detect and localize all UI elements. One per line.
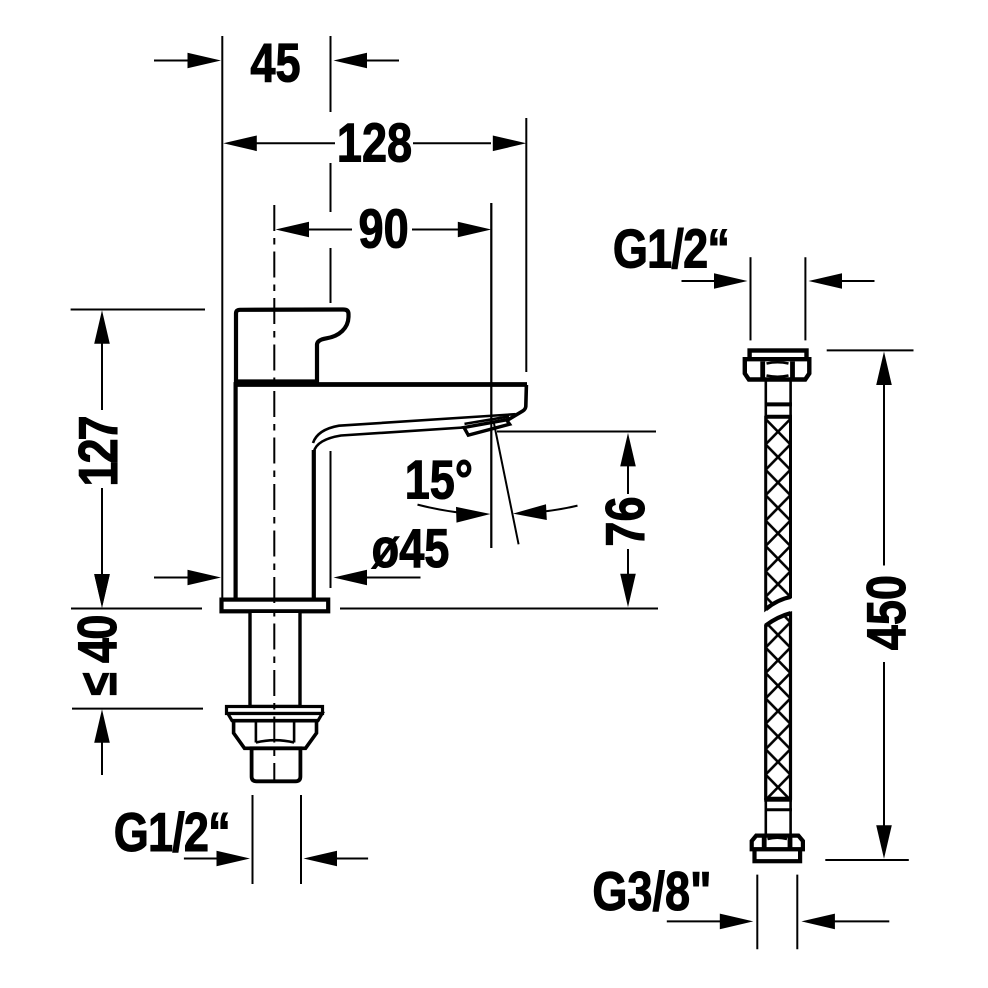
dimension 76: dim line and arrows	[620, 433, 636, 467]
svg-text:45: 45	[250, 31, 300, 93]
hose upper braid	[766, 417, 791, 609]
dimension G3/8: arrows	[667, 920, 722, 922]
hose top cap	[750, 351, 807, 360]
spout tip right edge	[508, 385, 526, 420]
outlet axis line	[490, 203, 492, 548]
dimension 127: reference line top	[71, 309, 205, 311]
hose bottom cap	[755, 849, 801, 861]
svg-text:76: 76	[594, 496, 656, 546]
lower flange	[227, 707, 323, 714]
hose top nut facets	[760, 362, 765, 378]
hose upper braid cut edge	[766, 597, 791, 609]
dimension G1/2 hose: extension lines	[750, 257, 752, 340]
faucet centerline	[273, 205, 275, 781]
dimension 128: dim line and arrows	[223, 136, 256, 152]
spout outlet level reference line	[497, 431, 656, 433]
svg-text:ø45: ø45	[372, 517, 450, 579]
hose bottom nut	[752, 836, 803, 850]
dimension G1/2 hose: arrows	[682, 280, 717, 282]
hose lower braid	[766, 613, 791, 798]
deck reference line left	[71, 608, 202, 610]
dimension <=40: reference line bottom	[72, 708, 203, 710]
svg-text:≤ 40: ≤ 40	[66, 616, 128, 696]
dimension 90: dim line and arrows	[276, 222, 310, 238]
hose lower braid cut edge	[766, 613, 791, 625]
svg-text:450: 450	[855, 575, 917, 650]
hose lower tube	[766, 801, 791, 836]
faucet body top line	[234, 382, 528, 387]
hose top nut	[745, 359, 810, 379]
spout underside outer line	[314, 428, 469, 453]
dimension 127: dim line and arrows	[94, 310, 110, 344]
dimension 128: extension line right	[525, 118, 527, 372]
dimension 45: arrows	[154, 60, 190, 62]
hose bottom nut facets	[762, 838, 767, 850]
hose lower band	[764, 798, 792, 801]
dimension 450: dim line and arrows	[876, 352, 892, 386]
outlet pipe stub	[252, 748, 301, 781]
hose upper band	[765, 402, 793, 406]
dimension <=40: arrows outside	[101, 548, 103, 577]
base plate	[222, 600, 329, 612]
deck reference line right	[340, 608, 658, 610]
svg-text:G1/2“: G1/2“	[114, 800, 230, 862]
faucet handle bottom line	[235, 380, 319, 385]
aerator outlet	[464, 420, 510, 435]
faucet handle	[236, 310, 349, 382]
svg-text:128: 128	[337, 111, 412, 173]
hex nut	[234, 721, 317, 749]
dimension G1/2 bottom-left: arrows	[184, 858, 219, 860]
15 deg arc right	[524, 506, 578, 513]
threaded shank	[250, 611, 300, 706]
dimension 45: extension line left	[221, 36, 223, 599]
dimension 45: extension line right (segments)	[330, 36, 332, 588]
dimension 90: extension line right	[490, 203, 492, 548]
dimension G1/2 bottom-left: extension lines	[252, 795, 254, 884]
hex nut facets	[256, 721, 294, 743]
dimension 450: reference line bottom	[825, 859, 909, 861]
svg-text:15°: 15°	[405, 448, 473, 510]
svg-text:90: 90	[359, 197, 409, 259]
faucet body	[236, 387, 314, 599]
hose upper tube	[766, 380, 791, 417]
water stream 15 deg line	[494, 422, 519, 545]
svg-text:G1/2“: G1/2“	[613, 217, 729, 279]
dimension o45: arrows	[154, 577, 190, 579]
15 deg arc left	[418, 505, 479, 514]
flange skirt	[228, 714, 322, 721]
spout underside inner line	[313, 414, 516, 443]
dimension G3/8: extension lines	[756, 875, 758, 950]
svg-text:127: 127	[67, 417, 129, 486]
svg-text:G3/8": G3/8"	[592, 860, 711, 922]
aerator inner line	[465, 416, 510, 424]
dimension 450: reference line top	[827, 349, 914, 351]
